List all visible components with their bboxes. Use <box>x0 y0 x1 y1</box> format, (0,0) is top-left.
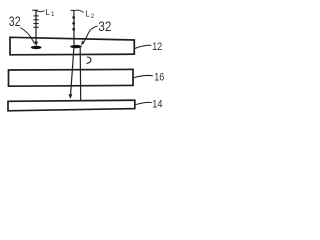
svg-text:14: 14 <box>152 99 162 111</box>
svg-text:1: 1 <box>51 11 55 18</box>
svg-text:12: 12 <box>152 41 162 53</box>
svg-text:32: 32 <box>9 14 21 29</box>
svg-text:32: 32 <box>98 19 111 34</box>
svg-text:2: 2 <box>91 13 95 20</box>
svg-text:L: L <box>45 7 50 17</box>
svg-text:L: L <box>85 9 90 19</box>
svg-text:16: 16 <box>154 72 164 84</box>
